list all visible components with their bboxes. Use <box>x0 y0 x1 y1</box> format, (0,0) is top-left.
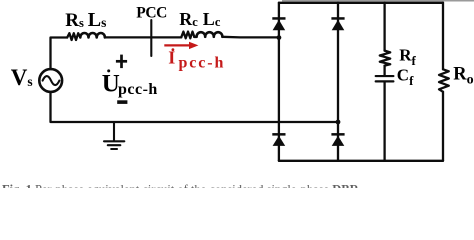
resistor Rf <box>380 51 390 66</box>
wire: right vertical lower (Ro to bottom rail) <box>442 92 444 161</box>
svg-text:Cf: Cf <box>397 66 414 89</box>
diode D3 <box>272 133 285 146</box>
capacitor Cf plate 2 <box>376 80 394 82</box>
node junction dot (top wire / left leg) <box>277 35 282 40</box>
voltage source Vs (circle) <box>39 69 62 92</box>
label - (polarity) <box>117 100 127 104</box>
diode D2 <box>331 17 344 30</box>
diode D4 <box>331 133 344 146</box>
svg-text:I: I <box>168 48 175 68</box>
inductor Lc <box>194 32 222 37</box>
svg-text:Vs: Vs <box>11 65 33 90</box>
node junction dot (bottom wire / second leg) <box>336 120 341 125</box>
wire: source bottom to ground wire <box>51 92 339 122</box>
resistor Rc <box>181 32 194 39</box>
wire: Lc to bridge <box>222 36 279 39</box>
diode D1 <box>272 17 285 30</box>
wire: riser from source to top wire <box>51 38 68 71</box>
wire: Ls to Rc <box>105 36 181 38</box>
current arrow Ipcc-h <box>164 42 198 49</box>
scan artifact: gray smear above top rail <box>282 0 474 2</box>
wire: bridge second leg <box>337 3 339 161</box>
wire: Rf-Cf branch top <box>383 3 385 51</box>
svg-text:pcc-h: pcc-h <box>179 54 226 71</box>
svg-text:Fig. 1 Per-phase equivalent c: Fig. 1 Per-phase equivalent circuit of t… <box>2 183 360 188</box>
ground <box>104 122 124 149</box>
svg-text:PCC: PCC <box>136 5 167 22</box>
svg-text:RsLs: RsLs <box>65 9 106 31</box>
voltage source Vs sine symbol <box>43 76 60 85</box>
resistor Rs <box>67 33 80 40</box>
svg-text:pcc-h: pcc-h <box>118 81 158 98</box>
wire: bridge left leg <box>278 3 280 161</box>
wire: Rf to Cf <box>383 66 385 75</box>
wire: bridge top rail <box>279 2 443 4</box>
wire: Cf to bottom rail <box>383 82 385 160</box>
resistor Ro <box>439 69 449 92</box>
wire: right vertical upper (to Ro) <box>442 3 444 70</box>
capacitor Cf plate 1 <box>376 75 394 77</box>
label + (polarity) <box>116 55 127 69</box>
wire: bridge bottom rail <box>279 160 443 162</box>
svg-text:Ro: Ro <box>453 64 473 87</box>
svg-text:RcLc: RcLc <box>179 9 221 29</box>
inductor Ls <box>80 33 105 37</box>
node PCC tick <box>150 20 152 56</box>
